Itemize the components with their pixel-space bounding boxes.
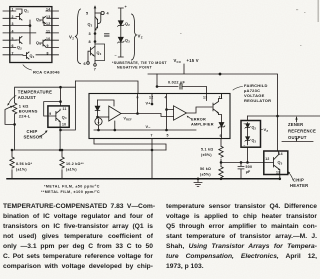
svg-text:14: 14 [46,8,50,12]
svg-text:V+: V+ [146,102,152,106]
svg-text:3: 3 [89,32,91,36]
svg-text:8: 8 [89,40,91,44]
svg-text:4: 4 [165,96,167,100]
svg-text:224-L: 224-L [19,114,31,119]
svg-text:(±5%): (±5%) [200,172,211,176]
svg-text:6: 6 [137,96,139,100]
svg-text:5.1 kΩ: 5.1 kΩ [201,148,213,152]
svg-text:9: 9 [220,134,222,138]
svg-text:µF: µF [246,170,251,174]
svg-text:*METAL FILM, ±50 ppm/°C: *METAL FILM, ±50 ppm/°C [44,185,100,189]
svg-text:11: 11 [46,30,50,34]
svg-text:10: 10 [62,123,66,127]
svg-text:5: 5 [167,134,169,138]
svg-text:9: 9 [47,44,49,48]
svg-text:7: 7 [94,68,96,72]
svg-text:3: 3 [12,22,14,26]
svg-text:OUTPUT: OUTPUT [288,135,307,140]
svg-text:11: 11 [219,96,223,100]
svg-text:56 kΩ: 56 kΩ [200,167,211,171]
svg-text:CHIP: CHIP [27,129,38,134]
svg-text:11: 11 [63,107,67,111]
svg-text:REFERENCE: REFERENCE [288,129,316,134]
svg-text:V–: V– [146,125,151,129]
svg-text:7: 7 [12,51,14,55]
svg-text:10.2 kΩ**: 10.2 kΩ** [66,162,84,166]
svg-text:(±1%): (±1%) [66,167,77,171]
svg-text:RCA CA3046: RCA CA3046 [33,69,60,74]
svg-text:2: 2 [12,15,14,19]
svg-text:500: 500 [246,165,253,169]
svg-text:ZENER: ZENER [288,122,303,127]
svg-text:4: 4 [12,30,14,34]
svg-text:–: – [243,143,245,147]
svg-text:5: 5 [86,11,88,15]
svg-text:+: + [243,121,245,125]
svg-text:REGULATOR: REGULATOR [244,98,271,103]
svg-text:10: 10 [46,37,50,41]
svg-text:6: 6 [84,62,86,66]
svg-text:8: 8 [47,51,49,55]
svg-text:7: 7 [151,134,153,138]
svg-text:(±5%): (±5%) [201,153,212,157]
svg-text:CHIP: CHIP [293,178,304,183]
svg-text:6: 6 [12,44,14,48]
svg-text:ERROR: ERROR [191,118,206,122]
svg-text:*SUBSTRATE, TIE TO MOST: *SUBSTRATE, TIE TO MOST [112,61,167,65]
svg-text:12: 12 [265,157,269,161]
svg-text:12: 12 [46,22,50,26]
svg-text:(±1%): (±1%) [16,167,27,171]
svg-text:NEGATIVE POINT: NEGATIVE POINT [117,66,152,70]
svg-text:13: 13 [276,171,280,175]
svg-text:SENSOR: SENSOR [24,135,43,140]
svg-text:8.56 kΩ*: 8.56 kΩ* [16,162,33,166]
svg-text:1: 1 [12,8,14,12]
svg-text:14: 14 [279,152,283,156]
svg-text:9: 9 [49,112,51,116]
svg-text:–: – [115,54,117,58]
svg-text:0.022 µF: 0.022 µF [168,81,185,85]
svg-text:AMPLIFIER: AMPLIFIER [191,123,214,127]
svg-text:13: 13 [203,96,207,100]
svg-text:12: 12 [149,96,153,100]
svg-text:HEATER: HEATER [290,183,308,188]
svg-text:+15 V: +15 V [187,58,199,63]
svg-text:ADJUST: ADJUST [18,95,36,100]
svg-text:TEMPERATURE: TEMPERATURE [18,90,52,95]
svg-text:13: 13 [46,15,50,19]
svg-text:**METAL FILM, ±100 ppm/°C: **METAL FILM, ±100 ppm/°C [41,190,100,194]
svg-text:5: 5 [12,37,14,41]
